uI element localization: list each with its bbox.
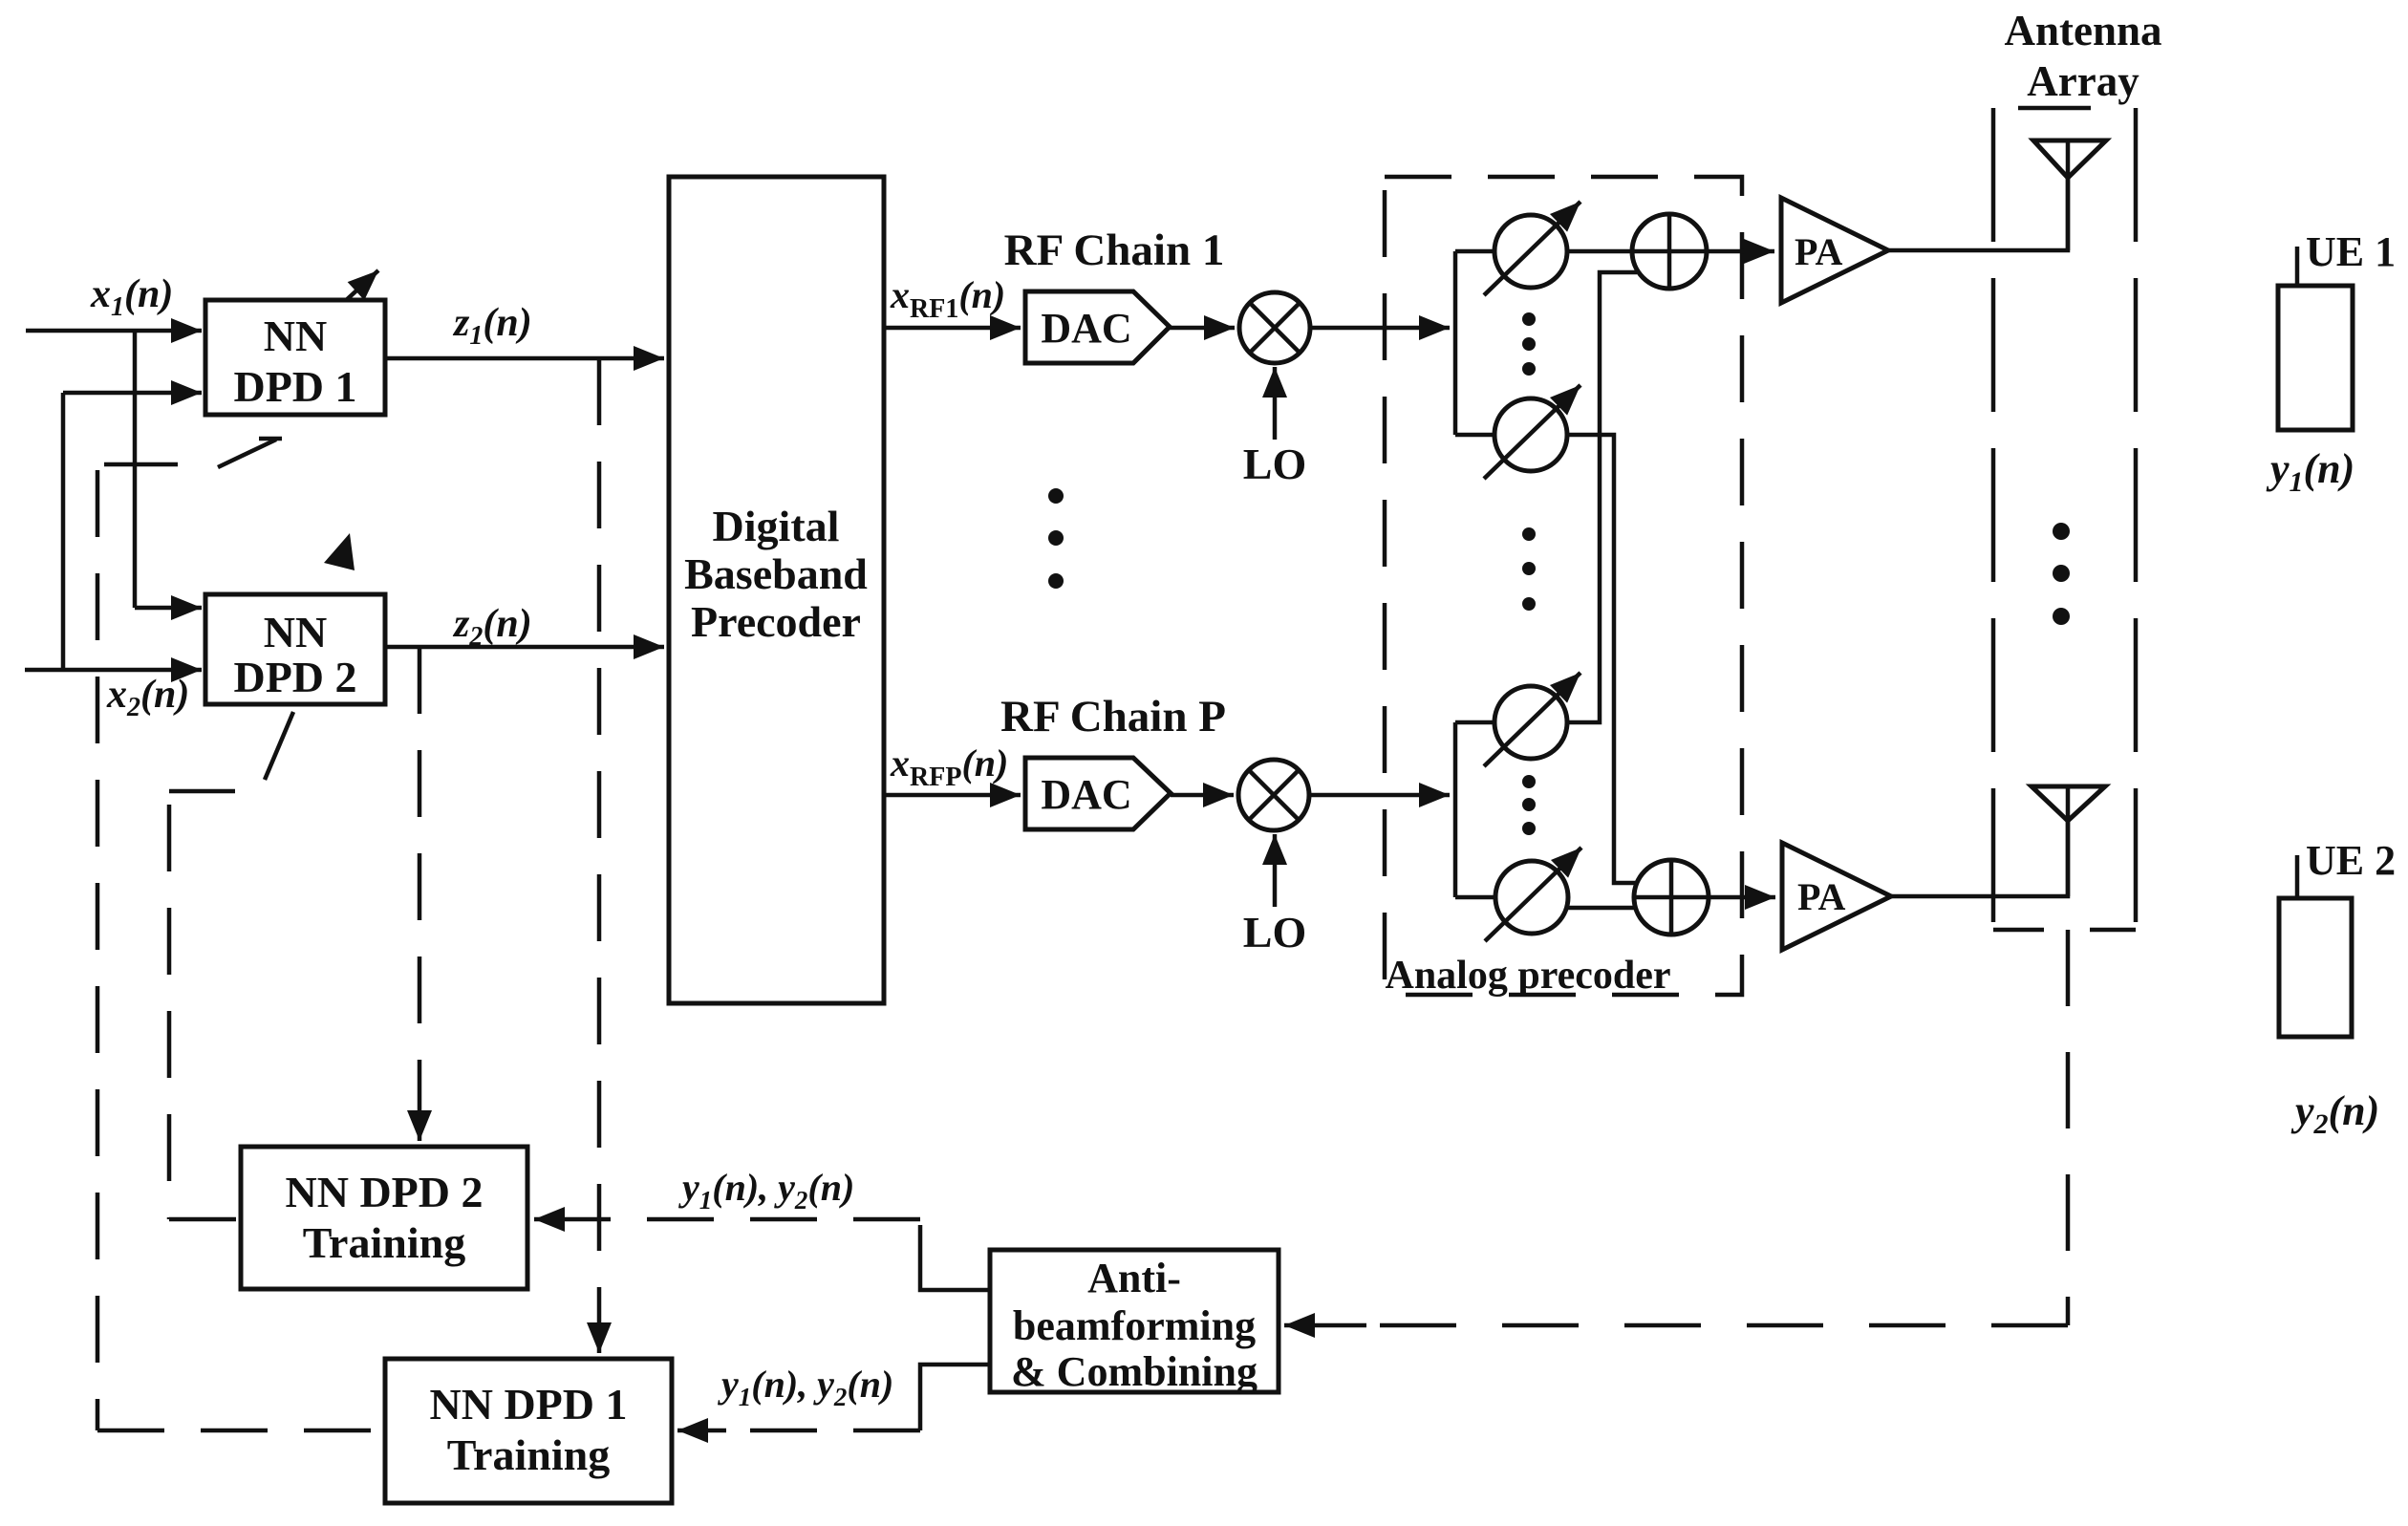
svg-text:DAC: DAC bbox=[1041, 771, 1131, 818]
svg-text:UE 2: UE 2 bbox=[2306, 837, 2396, 884]
svg-text:x2(n): x2(n) bbox=[106, 673, 189, 722]
svg-text:UE 1: UE 1 bbox=[2306, 228, 2396, 275]
svg-text:Anti-: Anti- bbox=[1087, 1255, 1181, 1301]
svg-text:Training: Training bbox=[303, 1218, 465, 1267]
svg-text:PA: PA bbox=[1797, 875, 1845, 918]
svg-text:Antenna: Antenna bbox=[2004, 7, 2161, 54]
svg-text:Baseband: Baseband bbox=[684, 549, 868, 598]
svg-text:LO: LO bbox=[1243, 908, 1306, 956]
svg-text:DPD 1: DPD 1 bbox=[233, 362, 356, 411]
svg-text:DPD 2: DPD 2 bbox=[233, 653, 356, 701]
svg-text:Digital: Digital bbox=[713, 502, 840, 550]
svg-text:xRFP(n): xRFP(n) bbox=[890, 742, 1008, 792]
svg-text:NN: NN bbox=[264, 312, 327, 360]
svg-text:LO: LO bbox=[1243, 440, 1306, 488]
svg-text:DAC: DAC bbox=[1041, 305, 1131, 352]
svg-text:NN DPD 2: NN DPD 2 bbox=[286, 1168, 484, 1216]
svg-text:beamforming: beamforming bbox=[1013, 1302, 1256, 1349]
svg-text:y2(n): y2(n) bbox=[2290, 1087, 2379, 1140]
svg-text:xRF1(n): xRF1(n) bbox=[890, 273, 1005, 324]
svg-text:y1(n): y1(n) bbox=[2266, 445, 2354, 498]
svg-text:Array: Array bbox=[2027, 57, 2139, 105]
svg-text:RF Chain 1: RF Chain 1 bbox=[1004, 226, 1225, 275]
svg-text:Analog precoder: Analog precoder bbox=[1385, 954, 1670, 998]
svg-text:z2(n): z2(n) bbox=[452, 602, 532, 652]
svg-text:RF Chain P: RF Chain P bbox=[1000, 692, 1226, 742]
svg-text:x1(n): x1(n) bbox=[90, 272, 173, 322]
svg-text:Precoder: Precoder bbox=[691, 597, 861, 646]
svg-text:& Combining: & Combining bbox=[1011, 1348, 1258, 1395]
svg-text:y1(n), y2(n): y1(n), y2(n) bbox=[678, 1166, 854, 1214]
svg-text:NN: NN bbox=[264, 608, 327, 656]
svg-text:Training: Training bbox=[447, 1430, 610, 1479]
svg-text:y1(n), y2(n): y1(n), y2(n) bbox=[718, 1363, 893, 1411]
svg-text:PA: PA bbox=[1795, 230, 1842, 273]
svg-text:z1(n): z1(n) bbox=[452, 301, 532, 351]
svg-text:NN DPD 1: NN DPD 1 bbox=[430, 1380, 628, 1429]
